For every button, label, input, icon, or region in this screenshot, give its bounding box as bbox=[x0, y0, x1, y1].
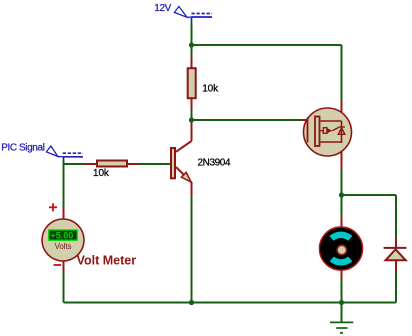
svg-text:Volts: Volts bbox=[55, 242, 72, 251]
svg-text:2N3904: 2N3904 bbox=[198, 158, 231, 169]
svg-text:Volt Meter: Volt Meter bbox=[77, 254, 137, 268]
svg-text:12V: 12V bbox=[154, 3, 171, 14]
svg-text:10k: 10k bbox=[93, 168, 110, 179]
svg-text:PIC Signal: PIC Signal bbox=[1, 143, 44, 154]
svg-text:10k: 10k bbox=[202, 84, 219, 95]
svg-text:+5.00: +5.00 bbox=[51, 231, 74, 241]
